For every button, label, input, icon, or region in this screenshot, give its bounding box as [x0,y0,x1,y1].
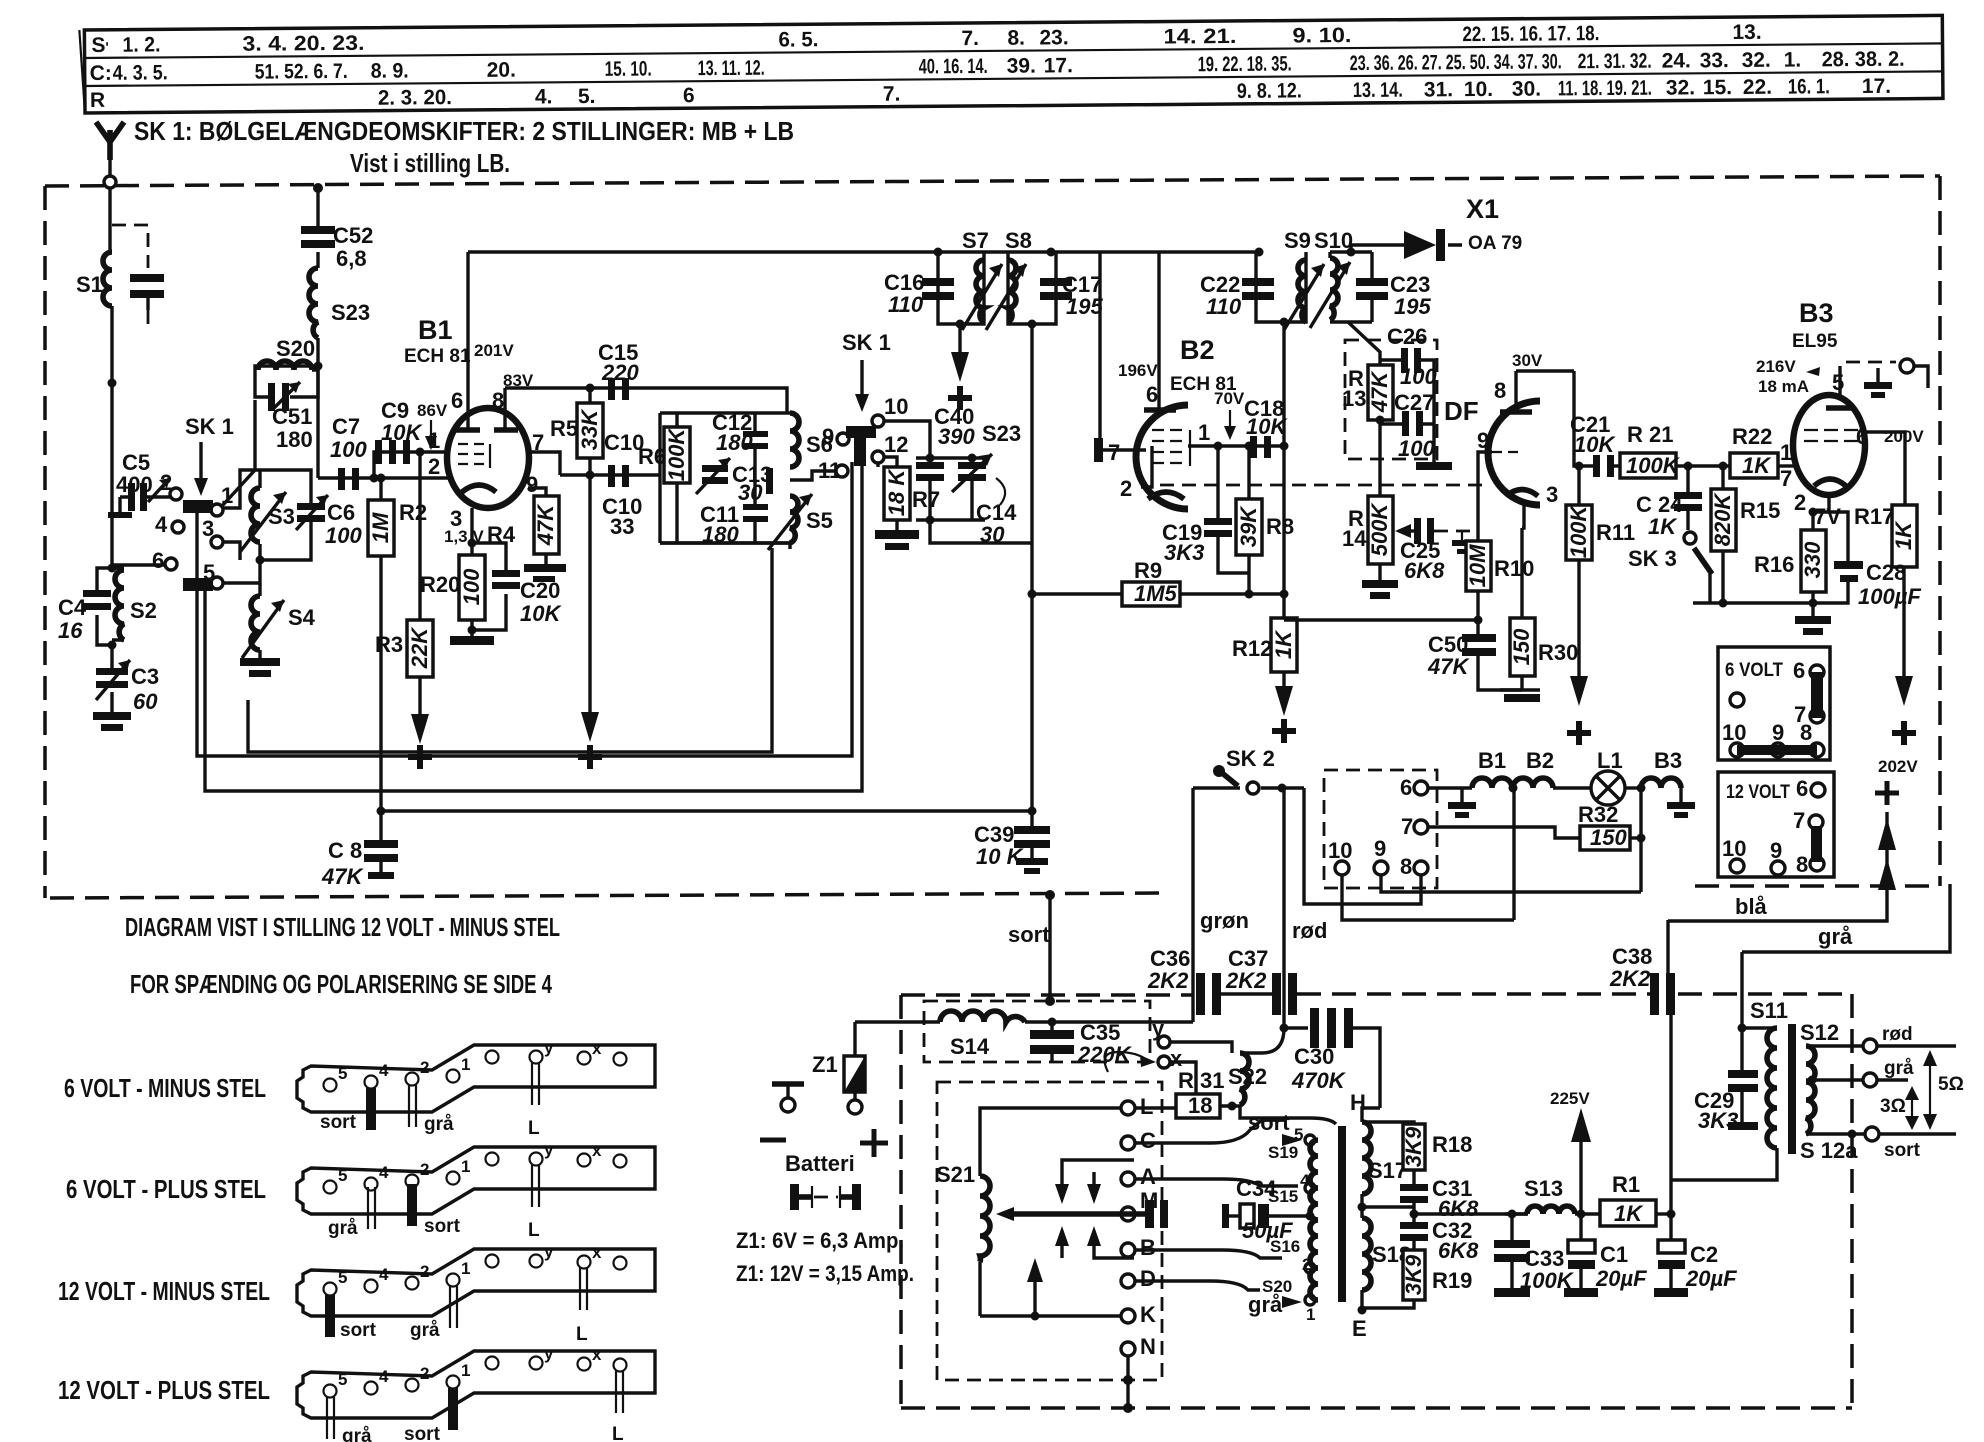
svg-text:SK 1: SK 1 [842,330,891,355]
capacitor C18 [1244,396,1288,458]
ground on heater [1448,788,1476,818]
svg-text:100K: 100K [1626,453,1681,478]
heater coil B2 [1513,748,1591,788]
svg-text:4.: 4. [535,85,553,108]
svg-text:R 21: R 21 [1627,422,1673,447]
coil S4 variable [242,560,316,658]
capacitor C20 [472,543,562,630]
terminal K [1121,1302,1156,1327]
svg-text:blå: blå [1735,894,1768,919]
svg-text:70V: 70V [1214,389,1245,408]
svg-text:y: y [544,1038,554,1057]
terminals y x [1105,1016,1232,1094]
svg-text:195: 195 [1394,294,1431,319]
capacitor C37 [1225,946,1297,1015]
svg-text:1K: 1K [1271,629,1296,659]
header divider [79,30,85,113]
svg-text:3. 4. 20. 23.: 3. 4. 20. 23. [242,32,364,56]
pin 7 wire [529,452,560,475]
gra wire [1742,884,1950,952]
wire contact3 to S3 [223,542,240,560]
coil S1 [76,252,112,306]
svg-text:32.: 32. [1666,76,1695,99]
svg-text:Z1: Z1 [812,1052,838,1077]
svg-text:5: 5 [338,1166,347,1185]
svg-text:86V: 86V [417,401,448,420]
svg-text:30: 30 [738,480,763,505]
svg-text:R 31: R 31 [1178,1068,1224,1093]
rod wire to C30 S22 [1282,788,1285,1028]
power box dashed bottom edge [901,1406,1852,1410]
capacitor C31 [1400,1170,1479,1222]
svg-text:10K: 10K [520,601,562,626]
svg-text:12 VOLT - MINUS STEL: 12 VOLT - MINUS STEL [58,1276,270,1306]
capacitor C38 [1609,920,1675,1015]
tube B2 [1103,252,1289,509]
top plate [1826,405,1854,411]
svg-text:M: M [1140,1188,1158,1213]
svg-text:10: 10 [884,394,908,419]
svg-text:L: L [612,1424,624,1442]
svg-text:4: 4 [379,1061,389,1080]
svg-text:18: 18 [1188,1093,1212,1118]
node junction [108,379,117,388]
svg-text:22K: 22K [407,626,432,669]
svg-text:39K: 39K [1236,505,1261,547]
svg-text:7: 7 [1780,466,1792,491]
svg-text:21. 31. 32.: 21. 31. 32. [1578,50,1652,74]
svg-text:10.: 10. [1464,78,1493,101]
capacitor C2 electrolytic [1654,1214,1737,1297]
svg-text:S10: S10 [1314,228,1353,253]
svg-text:C6: C6 [327,500,355,525]
svg-text:5Ω: 5Ω [1938,1074,1964,1095]
svg-text:8: 8 [1796,852,1808,877]
resistor R22 [1730,424,1794,491]
power box dashed top right segment [1678,992,1852,996]
svg-text:SK 1: BØLGELÆNGDEOMSKIFTER:: SK 1: BØLGELÆNGDEOMSKIFTER: 2 STILLINGER… [134,116,794,146]
svg-text:216V: 216V [1756,357,1796,376]
svg-text:grå: grå [1248,1292,1283,1317]
svg-text:10: 10 [1328,838,1352,863]
S14 filter dashed box [924,1001,1150,1062]
grid dashes [1152,430,1190,466]
svg-text:6: 6 [1796,776,1808,801]
svg-text:L1: L1 [1597,748,1623,773]
wiper bars [846,426,876,438]
row separator S/C [85,43,1943,58]
battery symbol [790,1184,861,1210]
svg-text:A: A [1140,1164,1156,1189]
resistor R15 [1710,466,1780,603]
main box dashed left edge [43,186,47,898]
svg-text:C4: C4 [58,595,87,620]
svg-text:9. 10.: 9. 10. [1292,24,1351,47]
connector 6 volt plus stel [66,1140,655,1241]
tube B1 [404,252,560,555]
diode X1 [1351,194,1522,261]
winding S17 [1362,1122,1407,1194]
svg-text:10M: 10M [1465,544,1490,587]
svg-text:2K2: 2K2 [1225,968,1267,993]
cathode [1148,492,1184,499]
svg-text:4. 3. 5.: 4. 3. 5. [113,61,168,84]
svg-text:6: 6 [1146,382,1158,407]
svg-text:51. 52. 6. 7.: 51. 52. 6. 7. [255,60,348,84]
wire to contact 6 [112,563,164,566]
12 VOLT plug box [1718,772,1834,877]
cathode network [1794,490,1848,561]
wire pin7 to C10 line [560,473,660,476]
heater wire from pin 6 [1428,786,1472,789]
trimmer S23 [916,421,1021,525]
svg-text:B2: B2 [1180,335,1215,365]
svg-text:B2: B2 [1526,748,1554,773]
cathode [462,485,496,492]
capacitor C10 [602,430,644,539]
svg-text:100K: 100K [1566,504,1591,559]
svg-text:S1: S1 [76,272,103,297]
svg-text:B1: B1 [1478,748,1506,773]
svg-text:B: B [1140,1235,1156,1260]
svg-text:R11: R11 [1596,520,1635,545]
svg-text:9: 9 [1477,428,1489,453]
svg-text:L: L [528,1220,540,1241]
tank S9 [1200,228,1324,330]
coil S21 [936,1108,1121,1316]
capacitor C4 [58,568,112,645]
svg-text:R22: R22 [1732,424,1772,449]
coil S6 [790,413,833,467]
cathode [1814,479,1846,486]
svg-text:100K: 100K [664,427,689,482]
svg-text:R8: R8 [1266,514,1294,539]
svg-text:1K: 1K [1648,514,1678,539]
svg-text:196V: 196V [1118,361,1158,380]
svg-text:x: x [592,1345,602,1364]
svg-text:1: 1 [1198,420,1210,445]
svg-text:18 mA: 18 mA [1758,377,1809,396]
svg-text:6: 6 [1400,775,1412,800]
wire R10/C50 to R9 rail [1284,618,1478,621]
svg-text:19. 22. 18. 35.: 19. 22. 18. 35. [1198,53,1292,77]
resistor R19 [1362,1250,1472,1308]
wire N to box bottom [1126,1356,1129,1408]
svg-text:13. 14.: 13. 14. [1353,79,1403,102]
svg-text:3Ω: 3Ω [1880,1096,1906,1117]
svg-text:C 8: C 8 [328,838,362,863]
S9 coil [1298,260,1306,322]
pin 3 wire [470,508,473,555]
svg-text:4: 4 [379,1367,389,1386]
capacitor C50 [1427,632,1522,690]
svg-text:225V: 225V [1550,1089,1590,1108]
svg-text:sort: sort [340,1320,377,1341]
svg-text:10: 10 [1722,720,1746,745]
output gra [1806,1058,1914,1087]
connector 12 volt minus stel [58,1242,655,1345]
svg-text:8. 9.: 8. 9. [371,59,409,82]
svg-text:C27: C27 [1394,390,1434,415]
svg-text:R12: R12 [1232,636,1272,661]
svg-text:3K9: 3K9 [1401,1254,1426,1295]
wire contact5 to S4 [223,581,260,584]
svg-text:8.: 8. [1007,27,1025,50]
svg-text:12 VOLT - PLUS STEL: 12 VOLT - PLUS STEL [58,1375,270,1405]
svg-text:S19: S19 [1268,1143,1298,1162]
svg-text:DIAGRAM VIST I STILLING: DIAGRAM VIST I STILLING 12 VOLT - MINUS … [125,912,560,942]
wiper bar upper [183,500,213,513]
svg-text:6: 6 [152,548,164,573]
svg-text:1: 1 [461,1157,470,1176]
coil S5 variable [768,494,833,550]
vibrator Z1 [812,1022,888,1157]
capacitor C39 [974,811,1050,874]
svg-text:SK 1: SK 1 [185,414,234,439]
svg-text:17.: 17. [1044,54,1073,77]
svg-text:sort: sort [1008,922,1050,947]
svg-text:14: 14 [1342,526,1367,551]
svg-text:rød: rød [1882,1024,1913,1045]
6 VOLT plug box [1718,647,1830,760]
svg-text:7: 7 [1401,814,1413,839]
svg-text:18 K: 18 K [884,468,909,517]
svg-text:11. 18. 19. 21.: 11. 18. 19. 21. [1558,77,1652,101]
coil S3 variable [240,470,295,560]
svg-text:R16: R16 [1754,552,1794,577]
resistor R4 [524,496,566,582]
svg-text:OA 79: OA 79 [1468,233,1522,254]
svg-text:sort: sort [424,1216,461,1237]
coil S14 [855,1011,1193,1059]
capacitor C35 [1030,1018,1133,1068]
svg-text:C51: C51 [272,404,312,429]
chassis arrow + plus under R5 [578,475,602,769]
node [314,362,323,371]
svg-text:R: R [90,89,105,112]
wire K to S21 [980,1314,1121,1317]
svg-text:47K: 47K [1367,370,1392,413]
resistor R32 [1428,788,1646,892]
main box dashed right edge [1938,176,1942,886]
svg-text:8: 8 [1800,720,1812,745]
dashed to terminal [1846,361,1896,364]
svg-text:1K: 1K [1891,520,1916,550]
output transformer S11 [1671,952,1796,1180]
power box dashed right edge [1850,994,1854,1408]
trimmer C51 [255,370,318,452]
svg-text:3K3: 3K3 [1164,540,1204,565]
B2 socket dashed box [1324,770,1437,888]
svg-text:y: y [544,1140,554,1159]
svg-text:6,8: 6,8 [336,246,367,271]
wire D to winding 1 [1135,1281,1260,1290]
trimmer C6 [260,470,362,560]
connector 6 volt minus stel [64,1038,655,1139]
svg-text:20µF: 20µF [1685,1266,1737,1291]
svg-text:150: 150 [1509,628,1534,665]
svg-text:23.: 23. [1039,26,1068,49]
main box dashed bottom edge left part [50,893,1170,898]
svg-text:470K: 470K [1291,1068,1347,1093]
svg-text:5: 5 [1832,370,1844,395]
svg-text:2K2: 2K2 [1147,968,1189,993]
anode plates [456,427,518,433]
wire S9 to B2 grid rail [1282,322,1285,594]
svg-text:9. 8. 12.: 9. 8. 12. [1237,79,1302,103]
svg-text:60: 60 [133,689,158,714]
svg-text:13: 13 [1342,386,1366,411]
resistor R14 potentiometer [1342,496,1398,599]
svg-text:47K: 47K [533,503,558,546]
svg-text:E: E [1352,1316,1367,1341]
pin 6 stem [466,252,469,430]
wire C to winding 5 [1135,1120,1285,1143]
sort chassis wire [1008,890,1055,1006]
wire B to winding 2 [1135,1250,1282,1258]
svg-text:SK 2: SK 2 [1226,746,1275,771]
resistor R11 [1566,462,1635,746]
coil S20 [255,336,318,370]
svg-text:330: 330 [1800,541,1825,578]
svg-text:1: 1 [461,1055,470,1074]
label C14 [976,478,1017,547]
capacitor C11 [700,502,768,547]
svg-text:13. 11. 12.: 13. 11. 12. [698,57,765,81]
bla wire [1668,812,1887,921]
svg-text:R19: R19 [1432,1268,1472,1293]
antenna [96,122,124,252]
svg-text:R17: R17 [1854,504,1894,529]
svg-text:1: 1 [1306,1305,1315,1324]
svg-text:grå: grå [328,1218,358,1239]
svg-text:16: 16 [58,618,83,643]
202V supply marker [1875,757,1918,890]
node [108,564,117,573]
svg-text:Z1: 6V = 6,3 Amp.: Z1: 6V = 6,3 Amp. [736,1228,904,1253]
tank S8 [986,228,1103,330]
svg-text:grøn: grøn [1200,908,1249,933]
tube B3 [1756,298,1928,495]
svg-text:7: 7 [1108,440,1120,465]
svg-text:S4: S4 [288,605,316,630]
svg-text:150: 150 [1590,825,1627,850]
power box dashed left edge [899,995,903,1408]
svg-text:500K: 500K [1367,502,1392,557]
svg-text:10K: 10K [1246,414,1288,439]
svg-text:1: 1 [461,1361,470,1380]
svg-text:K: K [1140,1302,1156,1327]
resistor R5 [550,384,603,480]
SK1 middle switch [818,330,908,483]
svg-text:S12: S12 [1800,1020,1839,1045]
resistor R8 [1236,446,1294,599]
svg-text:7: 7 [1793,808,1805,833]
svg-text:2: 2 [428,454,440,479]
svg-text:16. 1.: 16. 1. [1788,75,1830,98]
capacitor C21 [1570,412,1620,477]
trimmer C13 [696,458,773,505]
svg-text:x: x [1170,1046,1183,1071]
svg-text:B3: B3 [1799,298,1834,328]
resistor R9 [1034,558,1284,606]
svg-text:L: L [576,1324,588,1345]
svg-text:S14: S14 [950,1034,990,1059]
resistor R21 [1620,422,1730,478]
svg-text:R3: R3 [375,632,403,657]
svg-text:C28: C28 [1866,560,1906,585]
socket pin wires [1304,788,1421,904]
svg-text:13.: 13. [1732,21,1761,44]
S21 vibrator dashed box [937,1082,1162,1380]
svg-text:23. 36. 26. 27. 25.: 23. 36. 26. 27. 25. [1350,51,1466,75]
S7 coil [976,260,984,322]
S10 coil [1330,258,1338,320]
svg-text:ECH 81: ECH 81 [404,346,471,367]
pin 9 wire [528,488,546,496]
svg-text:7.: 7. [961,27,979,50]
E terminal [1352,1290,1367,1341]
svg-text:10: 10 [1722,836,1746,861]
plate wire 200V [1864,432,1905,505]
svg-text:R7: R7 [912,487,940,512]
svg-text:15. 10.: 15. 10. [605,58,652,81]
svg-text:820K: 820K [1710,492,1735,547]
capacitor C33 [1494,1214,1575,1297]
IF transformer 1 frame [660,413,790,543]
svg-text:22. 15. 16. 17. 18.: 22. 15. 16. 17. 18. [1462,22,1599,46]
svg-text:C2: C2 [1690,1242,1718,1267]
terminal A [1121,1164,1156,1189]
feedback loop wire A [197,462,852,756]
resistor R18 [1362,1122,1472,1170]
svg-text:1K: 1K [1614,1201,1644,1226]
svg-text:L: L [528,1118,540,1139]
resistor R2 [368,474,427,812]
svg-text:9: 9 [526,472,538,497]
svg-text:R5: R5 [550,416,578,441]
svg-text:4: 4 [379,1265,389,1284]
impedance markers [1880,1050,1964,1130]
grid dashes [1804,430,1858,441]
svg-text:6: 6 [451,388,463,413]
svg-text:C3: C3 [131,664,159,689]
svg-text:S11: S11 [1750,998,1788,1023]
svg-text:C52: C52 [333,223,373,248]
svg-text:10K: 10K [381,420,423,445]
svg-text:5: 5 [338,1370,347,1389]
svg-text:9: 9 [822,424,834,449]
svg-text:R2: R2 [399,500,427,525]
resistor R17 [1854,504,1917,745]
terminal D [1121,1266,1156,1291]
svg-text:12: 12 [884,432,908,457]
terminal N [1121,1334,1156,1359]
svg-text:sort: sort [404,1424,441,1442]
main box dashed top edge [45,176,1940,186]
svg-text:S2: S2 [130,598,157,623]
svg-text:S5: S5 [806,508,833,533]
svg-text:3K9: 3K9 [1401,1126,1426,1167]
svg-text:14. 21.: 14. 21. [1163,25,1236,49]
svg-text:1M5: 1M5 [1134,581,1178,606]
svg-text:100: 100 [330,437,367,462]
capacitor C24 [1636,466,1702,539]
grid link wire to B2 [1098,252,1101,438]
resistor R7 [875,457,940,550]
node R3 top [416,448,425,457]
resistor R30 [1500,528,1578,702]
